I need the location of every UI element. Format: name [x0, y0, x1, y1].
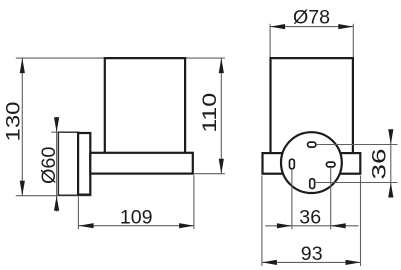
leader line right slot to bottom 36 dim [330, 167, 332, 229]
arrow O60 bottom [54, 196, 59, 211]
dimension line 36 right [390, 131, 392, 197]
screw slot top [308, 142, 316, 147]
arrow 110 top [219, 58, 224, 73]
extension line O78 right [352, 24, 354, 57]
holder ring band (front view) [263, 153, 361, 174]
dimension line 109 [79, 225, 195, 227]
extension line top of wall disc (O60 top) [51, 131, 79, 133]
arrow 93 left [262, 260, 277, 265]
leader line left slot to bottom 36 dim [291, 169, 293, 230]
arrow O60 top [54, 117, 59, 132]
svg-text:109: 109 [120, 206, 153, 228]
screw slot left [290, 159, 295, 169]
extension line 110 bottom (ring bottom) [194, 173, 225, 175]
arrow 110 bottom [219, 159, 224, 174]
svg-text:36: 36 [299, 206, 321, 228]
svg-text:36: 36 [369, 148, 391, 179]
arrow 36 right bottom [388, 183, 393, 198]
extension line 93 right [360, 176, 362, 267]
arrow 109 left [79, 223, 94, 228]
svg-text:93: 93 [301, 243, 323, 265]
holder ring (side view) [90, 153, 193, 174]
wall disc (side view) [58, 132, 78, 195]
svg-text:130: 130 [2, 101, 24, 141]
arrow O78 left [270, 24, 285, 29]
glass tumbler (front view) [271, 58, 353, 154]
dimension line 130 [21, 58, 23, 196]
arrow O78 right [338, 24, 353, 29]
extension line 109 left [77, 197, 79, 230]
arrow 109 right [179, 223, 194, 228]
leader line top slot to right 36 dim [316, 144, 397, 146]
dimension line 110 [220, 58, 222, 174]
dimension line 36 bottom [265, 225, 358, 227]
svg-text:110: 110 [199, 93, 221, 133]
arrow 36 bottom left [277, 223, 292, 228]
dimension line O78 [270, 26, 353, 28]
arrow 130 bottom [20, 181, 25, 196]
extension line 109 right [193, 175, 195, 229]
svg-text:Ø78: Ø78 [293, 7, 330, 29]
leader line bottom slot to right 36 dim [314, 182, 397, 184]
wall plate circle (front view) [281, 132, 342, 193]
arrow 36 bottom right [331, 223, 346, 228]
extension line top (glass top, spans both 130 and 110 dims) [16, 57, 225, 59]
wall plate front cover (side view) [78, 133, 90, 195]
arrow 130 top [20, 58, 25, 73]
dimension line O60 [56, 117, 58, 212]
svg-text:Ø60: Ø60 [38, 146, 60, 184]
screw slot right [326, 162, 335, 167]
glass tumbler (side view) [105, 58, 185, 154]
screw slot bottom [310, 179, 315, 189]
dimension line 93 [262, 261, 361, 263]
arrow 36 right top [388, 129, 393, 144]
extension line O78 left [269, 24, 271, 57]
extension line bottom of wall plate (130 / O60 bottom) [16, 195, 92, 197]
extension line 93 left [261, 176, 263, 267]
arrow 93 right [346, 260, 361, 265]
